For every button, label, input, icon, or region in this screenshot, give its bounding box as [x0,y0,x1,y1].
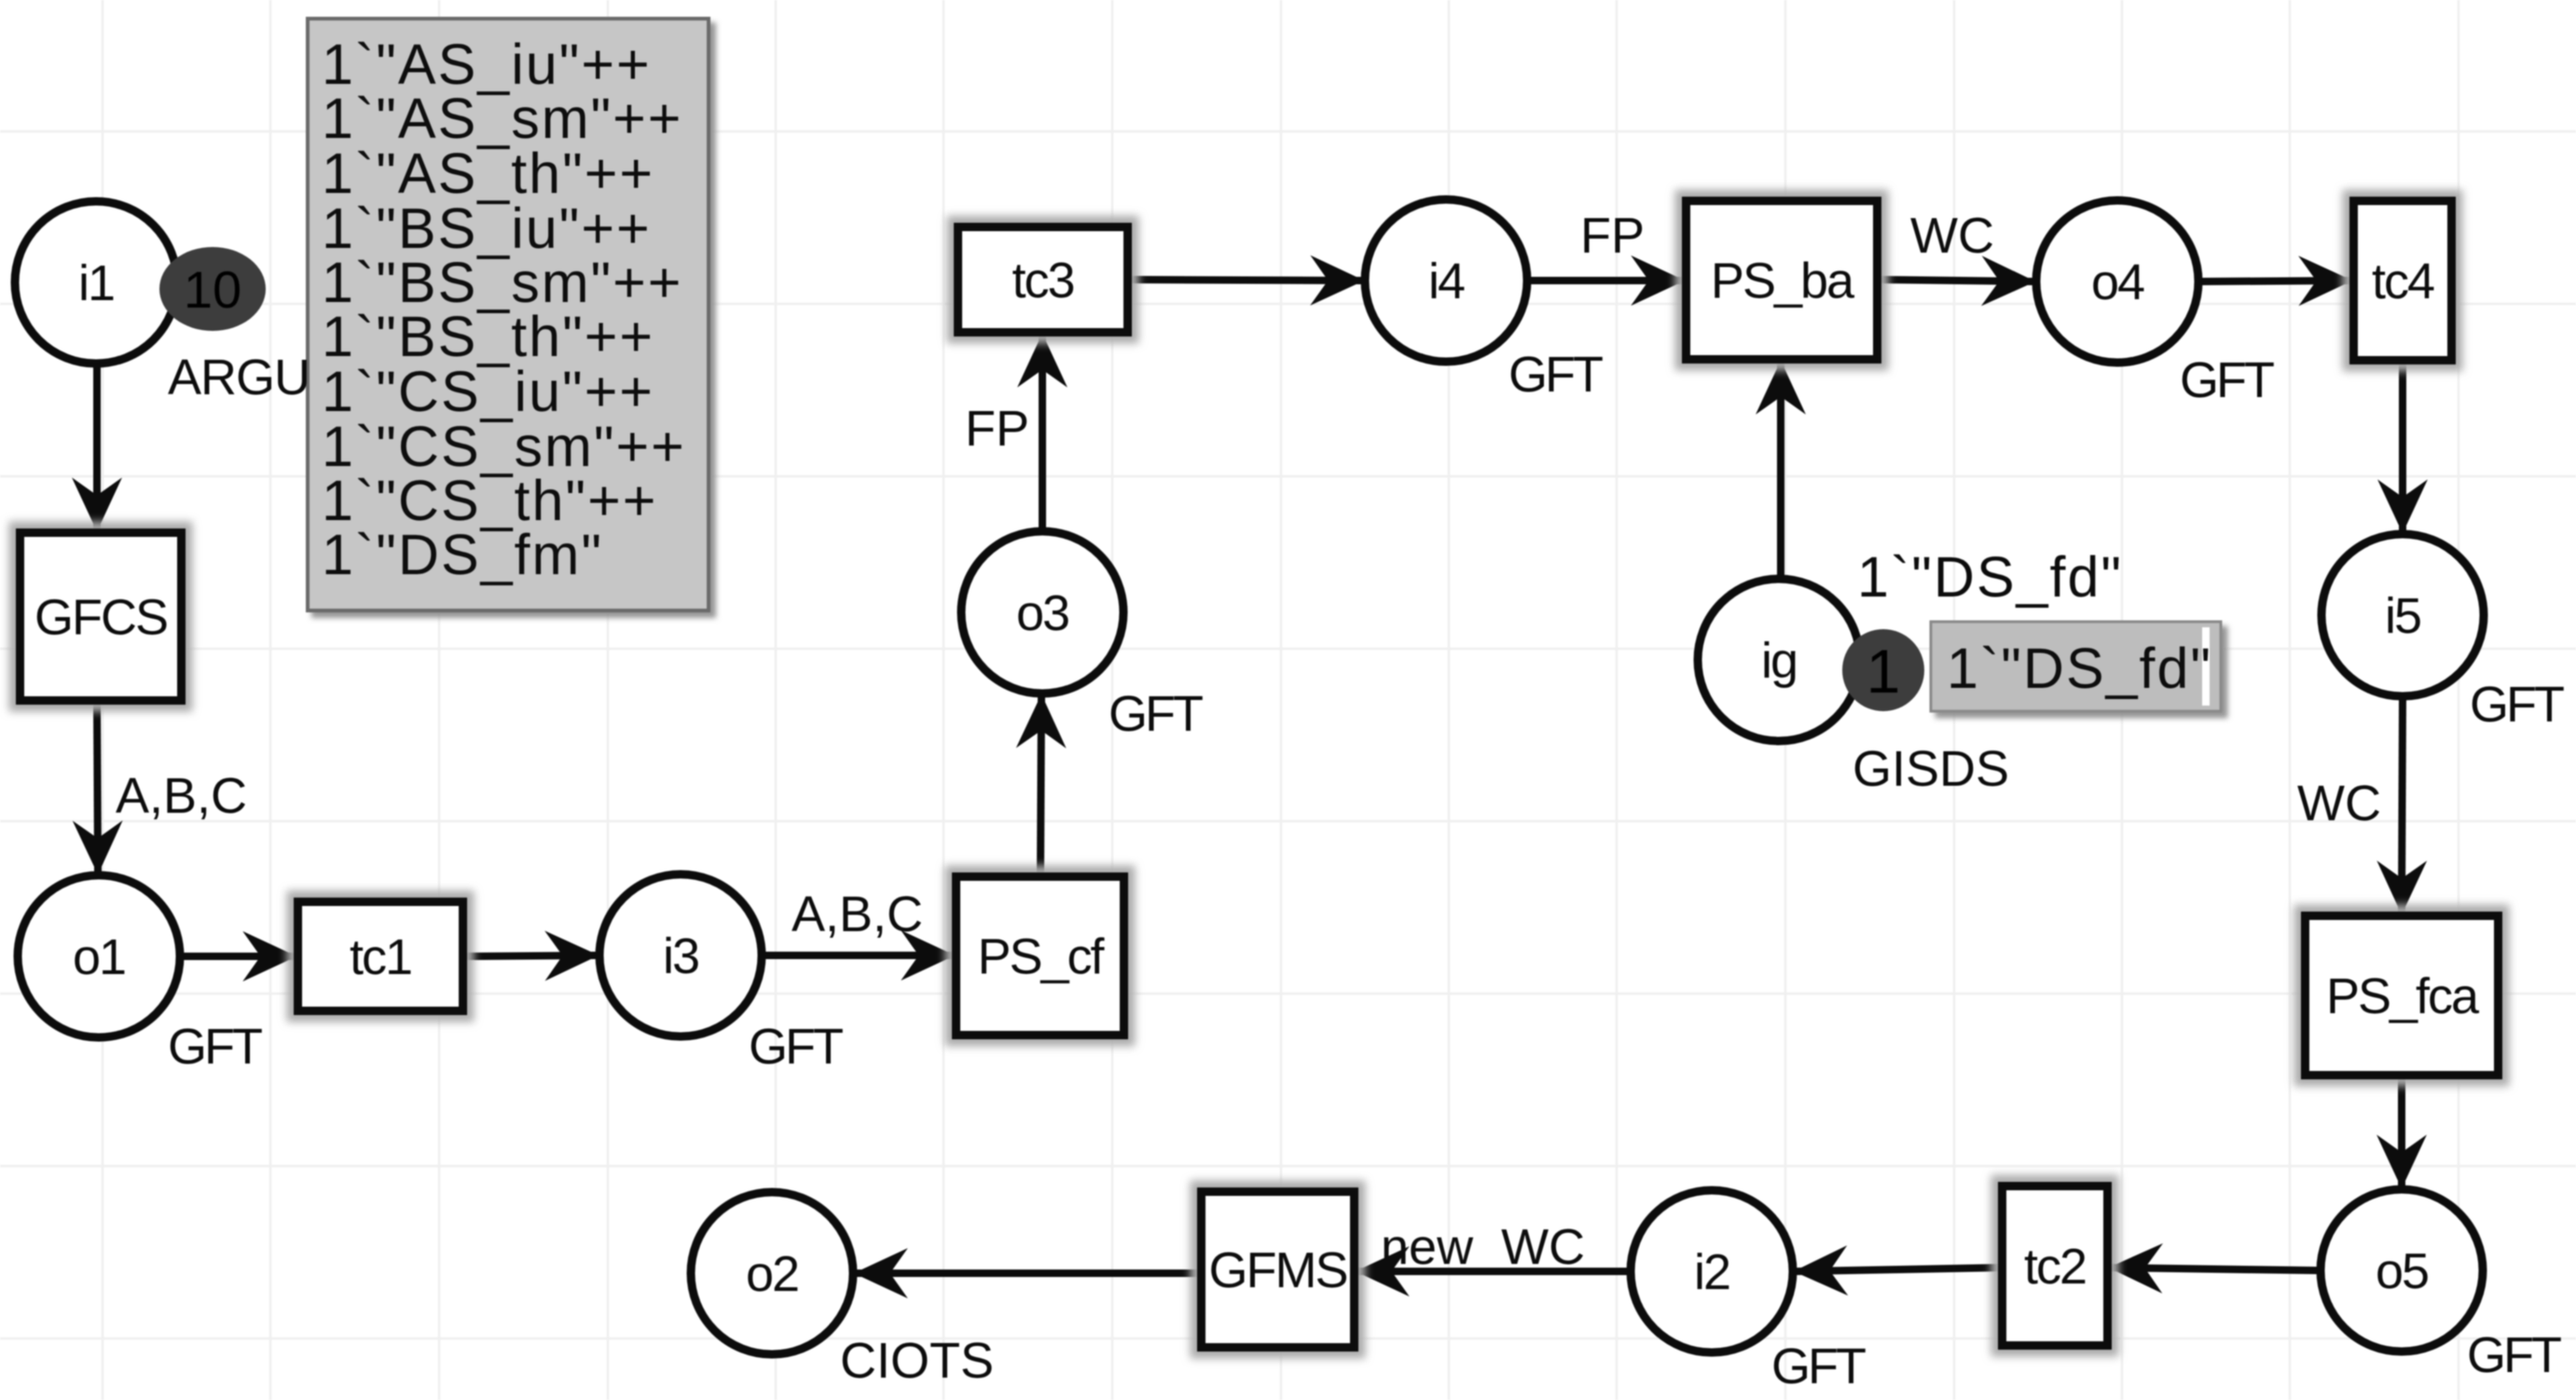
svg-text:ARGU: ARGU [168,350,310,405]
svg-text:GFT: GFT [1771,1338,1866,1394]
transition GFCS [21,533,182,701]
svg-text:i1: i1 [78,255,114,311]
svg-text:1`"DS_fm": 1`"DS_fm" [322,523,603,586]
svg-text:i3: i3 [663,928,698,984]
svg-text:FP: FP [965,401,1029,457]
svg-text:FP: FP [1580,208,1645,264]
svg-text:tc3: tc3 [1012,253,1073,309]
place o5 [2321,1189,2483,1352]
place i4 [1365,199,1527,362]
marking box ig [1931,622,2221,711]
place o3 [961,531,1123,693]
svg-text:1`"DS_fd": 1`"DS_fd" [1857,545,2123,609]
svg-text:GFT: GFT [2180,352,2274,408]
transition tc3 [958,227,1128,333]
place o4 [2036,200,2198,363]
transition GFMS [1202,1192,1355,1348]
svg-text:GFT: GFT [749,1019,843,1075]
svg-text:tc4: tc4 [2372,254,2434,309]
svg-text:A,B,C: A,B,C [792,886,923,942]
arc GFCS to o1 [97,705,98,872]
transition PS_cf [957,877,1124,1036]
marking box i1 multiset [308,19,709,611]
arc i4 to PS_ba [1531,277,1682,284]
svg-text:i2: i2 [1694,1244,1729,1300]
svg-text:PS_cf: PS_cf [977,929,1105,985]
svg-text:GFMS: GFMS [1209,1242,1347,1298]
svg-text:1`"AS_sm"++: 1`"AS_sm"++ [322,87,682,150]
arc i3 to PS_cf [765,952,952,959]
svg-text:GFT: GFT [1508,347,1603,403]
svg-text:GFT: GFT [168,1019,262,1075]
svg-text:10: 10 [184,260,241,319]
transition tc2 [2003,1187,2108,1346]
svg-text:WC: WC [1910,208,1994,264]
svg-text:new_WC: new_WC [1381,1219,1585,1275]
arc o4 to tc4 [2202,281,2349,281]
svg-text:i4: i4 [1428,254,1465,309]
svg-text:GISDS: GISDS [1853,741,2009,797]
svg-text:WC: WC [2297,775,2381,831]
svg-text:o5: o5 [2376,1243,2428,1299]
arc GFMS to o2 [857,1270,1197,1277]
svg-text:o2: o2 [746,1246,798,1302]
arc i1 to GFCS [93,367,101,528]
svg-text:i5: i5 [2385,588,2420,644]
arc o1 to tc1 [184,953,294,960]
arc tc3 to i4 [1132,280,1361,281]
svg-text:1`"CS_iu"++: 1`"CS_iu"++ [322,360,654,423]
svg-text:o4: o4 [2091,254,2144,310]
transition PS_fca [2306,916,2499,1076]
svg-text:GFT: GFT [2467,1327,2561,1383]
arc i5 to PS_fca [2402,700,2403,912]
svg-text:A,B,C: A,B,C [116,768,247,824]
transition PS_ba [1687,201,1878,360]
svg-text:GFT: GFT [2470,677,2564,733]
arc tc1 to i3 [467,955,596,956]
svg-text:PS_fca: PS_fca [2326,968,2480,1024]
svg-text:CIOTS: CIOTS [840,1333,994,1389]
arc PS_ba to o4 [1881,280,2032,281]
svg-text:o1: o1 [73,929,125,985]
svg-text:1`"BS_th"++: 1`"BS_th"++ [322,305,654,368]
place i1 [15,201,177,364]
svg-text:PS_ba: PS_ba [1711,254,1855,309]
arc o5 to tc2 [2112,1268,2317,1270]
place i5 [2321,534,2484,696]
arc PS_cf to o3 [1040,697,1041,872]
place i2 [1631,1190,1793,1352]
arc PS_fca to o5 [2398,1079,2405,1186]
token badge i1 (10) [159,247,266,331]
place o1 [18,875,180,1037]
svg-text:1`"DS_fd": 1`"DS_fd" [1947,637,2212,700]
arc tc4 to i5 [2399,364,2406,530]
arc o3 to tc3 [1039,336,1046,528]
transition tc4 [2354,201,2452,361]
token badge ig (1) [1842,629,1924,711]
place i3 [599,874,762,1036]
svg-text:ig: ig [1761,633,1797,689]
arc tc2 to i2 [1797,1268,1998,1271]
svg-text:1: 1 [1867,637,1901,706]
svg-text:GFCS: GFCS [34,590,167,646]
arc ig to PS_ba [1777,364,1784,575]
svg-text:tc1: tc1 [350,929,411,985]
svg-text:tc2: tc2 [2024,1239,2086,1295]
svg-text:1`"AS_th"++: 1`"AS_th"++ [322,142,654,205]
transition tc1 [298,902,463,1011]
svg-text:GFT: GFT [1109,686,1203,742]
svg-text:o3: o3 [1016,585,1068,641]
arc i2 to GFMS [1358,1268,1627,1275]
place o2 [691,1192,853,1354]
place ig [1698,579,1860,741]
